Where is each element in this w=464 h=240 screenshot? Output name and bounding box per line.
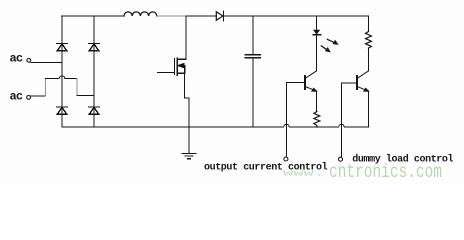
svg-text:ac: ac	[10, 90, 23, 104]
terminal ac2	[27, 96, 31, 100]
terminal ac1	[27, 58, 31, 62]
wire bridge left column	[61, 16, 63, 127]
wire Q2 base control drop	[286, 83, 288, 157]
wire bridge right column	[93, 16, 95, 127]
MOSFET Q1 body arrow	[178, 63, 184, 67]
transistor Q2 (output current control)	[304, 76, 306, 89]
wire ac2 horizontal from terminal	[31, 95, 46, 97]
diode D5 (boost rectifier)	[216, 12, 223, 21]
wire MOSFET source down/step	[185, 73, 189, 127]
resistor R2 (dummy load)	[366, 32, 372, 49]
wire Q2 emitter down	[316, 91, 318, 112]
wire top rail (LED node to right corner)	[317, 15, 369, 17]
diode D1 (bridge upper-left)	[57, 44, 68, 51]
wire Q2 base	[287, 82, 306, 84]
wire top rail (inductor to MOSFET drain node, gray)	[157, 15, 186, 17]
wire bottom rail with hops at control wires	[62, 124, 369, 127]
svg-text:dummy load control: dummy load control	[352, 154, 453, 166]
LED D6	[316, 16, 318, 30]
diode D3 (bridge lower-left)	[57, 107, 68, 114]
LED light arrow 1	[327, 39, 335, 43]
capacitor C1	[252, 16, 254, 54]
wire Q3 base	[341, 82, 357, 84]
wire top rail (cap node to LED node)	[253, 15, 317, 17]
terminal dummy-load-control	[339, 157, 343, 161]
wire ac2 riser up (gray)	[45, 79, 47, 97]
MOSFET Q1	[175, 58, 186, 76]
Q2 collector	[305, 71, 316, 79]
svg-text:ac: ac	[10, 52, 23, 66]
diode D4 (bridge lower-right)	[89, 107, 100, 114]
wire ac2 riser down (gray)	[76, 79, 78, 96]
wire top rail left segment	[62, 15, 125, 17]
svg-text:output current control: output current control	[204, 162, 328, 174]
wire ac1 to bridge	[31, 61, 62, 63]
wire Q3 base control drop	[340, 83, 342, 156]
wire top rail (diode to cap node)	[224, 15, 253, 17]
LED light arrow 2	[321, 46, 328, 51]
wire to ground	[188, 127, 190, 154]
Q3 emitter with arrow	[357, 87, 368, 91]
wire ac2 to bridge right column	[77, 95, 94, 97]
ground	[182, 154, 195, 159]
MOSFET Q1 gate stub wire	[158, 72, 175, 74]
Q2 emitter with arrow	[305, 87, 316, 91]
Q3 collector	[357, 71, 368, 79]
wire Q3 emitter to bottom rail	[368, 91, 370, 127]
terminal output-current-control	[284, 157, 288, 161]
watermark www.cntronics.com	[283, 161, 442, 183]
diode D2 (bridge upper-right)	[89, 44, 100, 51]
inductor L1	[124, 12, 157, 16]
wire MOSFET drain to top rail	[185, 16, 187, 59]
wire LED cathode to Q2 collector	[316, 35, 318, 71]
wire right branch top corner to resistor	[368, 16, 370, 32]
wire top rail (drain node to diode)	[186, 15, 217, 17]
wire capacitor to bottom rail	[252, 59, 254, 128]
transistor Q3 (dummy load control)	[356, 76, 358, 89]
resistor R1 (emitter)	[314, 112, 320, 128]
wire ac2 upper run with hop over left column	[46, 76, 78, 79]
wire resistor to Q3 collector	[368, 48, 370, 71]
